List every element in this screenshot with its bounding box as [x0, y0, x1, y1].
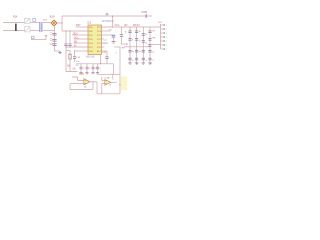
- node junction op2: [110, 84, 111, 85]
- wire IC pin 7 XTAL: [75, 50, 89, 52]
- op2 plus input wire: [102, 80, 105, 82]
- svg-text:R8: R8: [153, 38, 157, 40]
- svg-text:6: 6: [166, 45, 168, 47]
- ground: [96, 72, 99, 74]
- op2 input marks: [106, 80, 107, 82]
- capacitor C9: [128, 49, 131, 51]
- svg-text:C: C: [83, 68, 85, 70]
- wire IC right pin 6: [102, 46, 105, 48]
- svg-text:R14: R14: [13, 16, 18, 19]
- connector SV1 bus: [160, 24, 162, 49]
- op1 output wire: [90, 81, 97, 83]
- svg-text:x2: x2: [104, 39, 107, 41]
- connector SV1 pin 1: [161, 24, 165, 26]
- connector SV1 pin 2: [161, 28, 165, 30]
- svg-text:SV1: SV1: [158, 22, 163, 24]
- ground GND4: [128, 62, 131, 64]
- IC1 bottom pin wire: [100, 55, 102, 64]
- wire L input: [3, 22, 25, 24]
- wire IC pin 4: [74, 38, 89, 40]
- capacitor C3: [53, 43, 57, 45]
- IC1 left pin names: [89, 27, 94, 53]
- svg-text:B1/8: B1/8: [50, 17, 55, 19]
- gnd value blobs: [136, 63, 137, 64]
- connector X1 pin 2: [25, 27, 30, 32]
- capacitor C2: [53, 39, 57, 41]
- wire PE: [31, 39, 46, 41]
- resistor R6: [148, 44, 151, 46]
- wire VCC branch to rail: [112, 16, 114, 27]
- wire long vertical to op-amp section: [119, 47, 121, 74]
- connector X1 pin 1: [25, 18, 30, 23]
- op2 box left: [101, 86, 103, 94]
- cap bank column 1: [80, 64, 82, 67]
- svg-text:R7: R7: [153, 31, 157, 33]
- cap bank column 2: [86, 64, 88, 67]
- connector SV1 pin 4: [161, 36, 165, 38]
- wire cap drop 2: [69, 31, 71, 44]
- svg-text:TX: TX: [109, 29, 112, 31]
- ground GND6: [142, 62, 145, 64]
- svg-text:IC1: IC1: [87, 22, 92, 25]
- wire sense link: [114, 46, 120, 48]
- wire top rail right section: [102, 26, 161, 28]
- LED6: [142, 57, 145, 59]
- svg-text:VCC: VCC: [115, 25, 120, 27]
- svg-text:IC2A: IC2A: [79, 73, 84, 76]
- svg-text:re: re: [145, 60, 148, 62]
- op1 feedback riser: [92, 82, 94, 90]
- wire op2 top drop: [112, 74, 114, 79]
- wire IC right pin 3: [102, 34, 114, 36]
- wire IC pin 3: [72, 34, 88, 36]
- wire IC pin 5: [74, 42, 89, 44]
- op2 output wire: [111, 81, 117, 83]
- svg-text:5: 5: [166, 41, 168, 43]
- node junction: [100, 63, 101, 64]
- wire B1 minus drop: [54, 27, 56, 52]
- node junction: [69, 30, 70, 31]
- svg-text:R9: R9: [122, 47, 126, 49]
- resistor R3: [135, 30, 138, 32]
- node junction: [112, 15, 113, 16]
- svg-text:C14: C14: [76, 57, 81, 59]
- op1 minus input wire: [70, 83, 84, 85]
- resistor R2: [128, 30, 131, 32]
- ground GND3: [112, 41, 116, 43]
- svg-text:1k: 1k: [145, 34, 147, 36]
- LED3: [135, 38, 138, 40]
- capacitor C1: [53, 33, 57, 35]
- svg-text:1k: 1k: [125, 31, 128, 33]
- capacitor C12: [148, 49, 151, 51]
- svg-text:R3 R4: R3 R4: [133, 25, 140, 27]
- ground GND5: [135, 62, 138, 64]
- bridge rectifier B1: [51, 20, 57, 26]
- ladder column 3 wire: [142, 27, 144, 63]
- ladder mid rail: [124, 46, 150, 48]
- LED8: [148, 57, 151, 59]
- junction label tick: [146, 14, 147, 18]
- cap bank column 3: [92, 64, 94, 67]
- wire pin7 link down: [106, 51, 108, 57]
- svg-text:C13: C13: [102, 52, 107, 54]
- op-amp IC2A: [84, 79, 90, 85]
- connector SV1 pin 7: [161, 48, 165, 50]
- svg-text:rf: rf: [115, 52, 117, 55]
- op2 minus drop: [101, 84, 103, 87]
- IC1 body: [88, 25, 102, 55]
- ladder column 2 wire: [136, 27, 138, 63]
- node junction: [92, 81, 93, 82]
- wire N input: [3, 30, 25, 32]
- ladder column 1 wire: [129, 27, 131, 63]
- varistor R1: [15, 24, 17, 31]
- wire link to long vertical: [114, 73, 121, 75]
- wire under-IC rail: [76, 63, 114, 65]
- wire X1 to TR1 bottom: [30, 30, 40, 32]
- svg-text:ye: ye: [145, 43, 148, 45]
- svg-text:1k: 1k: [139, 31, 141, 33]
- resistor R5: [148, 30, 151, 32]
- capacitor C7 blue: [112, 34, 116, 36]
- wire TR1 to B1 bottom: [43, 30, 55, 32]
- op-amp IC2B: [105, 80, 111, 86]
- node junction at riser: [61, 22, 62, 23]
- wire X1 to TR1 top: [30, 22, 40, 24]
- node junction: [119, 84, 120, 85]
- wire B1 plus output: [58, 22, 63, 24]
- ground GND7: [148, 62, 151, 64]
- capacitor C5: [68, 43, 71, 45]
- wire long vertical lower: [119, 74, 121, 93]
- svg-text:1: 1: [166, 25, 168, 27]
- wire IC right pin 7: [102, 50, 108, 52]
- op2 minus input wire: [102, 83, 105, 85]
- LED2: [128, 57, 131, 59]
- capacitor C6: [74, 51, 76, 56]
- value labels ladder: [132, 31, 148, 53]
- capacitor C8 drop: [121, 27, 123, 34]
- pale note box: [121, 77, 127, 91]
- svg-text:2A: 2A: [84, 86, 87, 89]
- wire IC right pin 4: [102, 38, 105, 40]
- svg-text:g: g: [132, 39, 134, 41]
- wire IC pin 6: [66, 46, 88, 48]
- svg-text:2: 2: [100, 71, 102, 73]
- wire PE riser: [45, 36, 47, 40]
- wire IC right pin 5: [102, 42, 109, 44]
- resistor R4: [142, 33, 145, 35]
- svg-text:7: 7: [166, 49, 168, 51]
- svg-text:3: 3: [166, 33, 168, 35]
- ground GND1: [59, 51, 61, 52]
- wire mid link: [122, 43, 129, 45]
- svg-text:C: C: [89, 68, 91, 70]
- svg-text:PWR: PWR: [142, 11, 148, 14]
- svg-text:TR1: TR1: [43, 20, 48, 22]
- connector SV1 pin 3: [161, 32, 165, 34]
- ladder column 4 wire: [149, 27, 151, 63]
- IC1 right pin names: [97, 27, 102, 53]
- node junction: [112, 26, 113, 27]
- op2 feed vertical: [101, 77, 103, 81]
- wire TR1 to B1 top: [43, 22, 51, 24]
- svg-text:GN: GN: [76, 65, 80, 67]
- svg-text:2: 2: [166, 29, 168, 31]
- transformer TR1 secondary: [41, 22, 42, 32]
- op1 plus input wire: [72, 77, 84, 80]
- wire VCC riser: [61, 16, 63, 31]
- cap bank column 4: [97, 64, 99, 67]
- op1 feedback rail: [70, 89, 93, 91]
- capacitor C4: [64, 43, 67, 45]
- svg-text:gn: gn: [139, 41, 141, 43]
- supply tick PE: [45, 35, 47, 37]
- LED4: [135, 57, 138, 59]
- wire cap drop 1: [65, 31, 67, 44]
- wire op2 top feed: [98, 73, 114, 75]
- ground: [79, 72, 82, 74]
- node junction: [126, 43, 127, 44]
- svg-text:IC2B: IC2B: [105, 78, 110, 80]
- svg-text:C6: C6: [73, 69, 77, 71]
- wire op1 to op2 link: [96, 82, 98, 94]
- net label PE: [31, 36, 34, 38]
- wire IC pin 1: [76, 26, 89, 28]
- supply symbol VCC: [106, 13, 108, 16]
- capacitor C11: [142, 49, 145, 51]
- label TR1: [33, 19, 36, 22]
- ground: [91, 72, 94, 74]
- LED7: [148, 38, 151, 40]
- svg-text:re: re: [132, 60, 135, 62]
- svg-text:10n: 10n: [76, 61, 80, 63]
- transformer TR1 primary: [39, 22, 40, 32]
- svg-text:4u: 4u: [152, 51, 154, 53]
- LED1: [128, 38, 131, 40]
- connector SV1 pin 6: [161, 44, 165, 46]
- node junction: [65, 30, 66, 31]
- svg-text:4u: 4u: [132, 51, 134, 53]
- op1 feedback drop: [69, 84, 71, 90]
- wire to GND1: [55, 50, 61, 52]
- op1 input marks: [85, 79, 86, 81]
- svg-text:RX: RX: [104, 43, 108, 45]
- capacitor C10: [135, 49, 138, 51]
- svg-text:re: re: [152, 60, 155, 62]
- svg-text:MEGA8: MEGA8: [86, 55, 95, 58]
- wire AIN rail to IC pin 2: [62, 30, 88, 32]
- bottom rail: [97, 93, 120, 95]
- wire rail drop right: [113, 64, 115, 75]
- wire to SV1 lower: [152, 44, 161, 46]
- wire crystal frame left: [66, 47, 78, 72]
- capacitor C13: [105, 56, 108, 58]
- svg-text:4u: 4u: [139, 51, 141, 53]
- connector SV1 pin 5: [161, 40, 165, 42]
- wire VCC rail: [62, 15, 152, 17]
- svg-text:4: 4: [166, 37, 168, 39]
- wire IC right pin 2: [102, 30, 111, 32]
- LED5: [142, 40, 145, 42]
- crystal Q1: [69, 51, 71, 54]
- ground: [85, 72, 88, 74]
- wire crystal top tie: [66, 50, 70, 52]
